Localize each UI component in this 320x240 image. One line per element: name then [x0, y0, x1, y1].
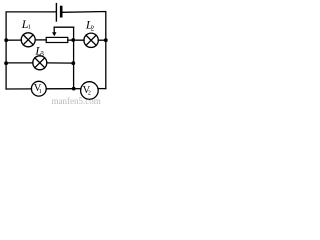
- wire L2 to right rail: [98, 39, 106, 41]
- node right row2: [104, 38, 108, 42]
- rheostat wiper arrow: [53, 27, 55, 32]
- lamp L1: [21, 33, 35, 47]
- node left row2: [4, 38, 8, 42]
- battery B1 short thick plate: [60, 7, 63, 16]
- wire vertical mid node: [73, 27, 75, 88]
- wire L3 to mid node: [47, 62, 74, 64]
- node left row3: [4, 61, 8, 65]
- lamp L2: [84, 33, 98, 47]
- wire row2 left: [6, 39, 21, 41]
- wire top left and left rail: [6, 12, 56, 89]
- svg-text:2: 2: [91, 24, 95, 32]
- svg-text:manfen5.com: manfen5.com: [52, 96, 101, 106]
- rheostat R box: [46, 37, 68, 42]
- battery B1 long plate: [55, 4, 57, 21]
- voltmeter V1: [31, 81, 46, 96]
- wire row3 left: [6, 62, 33, 64]
- voltmeter V2: [81, 82, 99, 100]
- wire bottom left to V1: [6, 88, 31, 90]
- wire mid node to V2: [74, 88, 81, 90]
- wire V2 to right rail: [98, 88, 106, 90]
- wire L1 to rheostat: [35, 39, 46, 41]
- wire wiper loop: [54, 26, 73, 28]
- wire top right and right rail: [62, 12, 105, 89]
- node mid bottom: [72, 87, 76, 91]
- svg-text:1: 1: [28, 23, 31, 30]
- node mid row3: [71, 61, 75, 65]
- wire V1 to mid node: [46, 88, 73, 90]
- node mid row2: [71, 38, 75, 42]
- lamp L3: [33, 56, 47, 70]
- svg-text:3: 3: [40, 50, 44, 58]
- wire rheostat to L2: [68, 39, 84, 41]
- svg-text:1: 1: [39, 89, 42, 95]
